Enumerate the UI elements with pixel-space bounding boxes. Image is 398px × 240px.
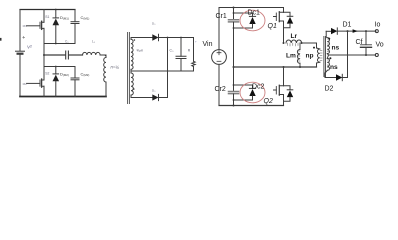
wire D2 branch: [325, 77, 336, 79]
transistor S2 (lower MOSFET): [27, 67, 45, 97]
minus sign: [217, 60, 221, 62]
wire bottom rail: [219, 105, 284, 107]
node dot: [55, 66, 57, 68]
diode D1: [331, 28, 337, 34]
red ellipse around Dc2: [240, 82, 265, 103]
svg-text:D₀: D₀: [152, 22, 156, 26]
wire series branch: [44, 54, 65, 56]
diode DM2 (lower): [53, 67, 60, 97]
node dot: [55, 43, 57, 45]
svg-text:Cr2: Cr2: [215, 86, 226, 93]
wire output top: [337, 30, 376, 32]
svg-text:Cr1: Cr1: [216, 13, 227, 20]
svg-text:Q1: Q1: [268, 23, 277, 30]
battery VB: [16, 50, 25, 52]
edge blob: [0, 38, 2, 41]
wire center tap: [131, 70, 194, 72]
svg-text:M2: M2: [23, 82, 27, 86]
svg-text:C₀: C₀: [65, 40, 69, 44]
polarity dot: [134, 39, 136, 41]
source Vin circle: [212, 50, 227, 65]
diode DM1 (upper): [53, 10, 60, 44]
wire D1 anode: [326, 30, 331, 32]
arrow Io: [353, 29, 358, 33]
svg-text:Lr: Lr: [291, 33, 298, 40]
transformer T1 primary: [104, 55, 106, 97]
polarity dot ns upper: [328, 38, 330, 40]
battery plus mark: [23, 36, 25, 38]
wire center tap out: [329, 54, 376, 56]
transformer T2 secondary upper ns: [326, 31, 329, 55]
svg-text:Cf: Cf: [356, 39, 363, 46]
wire D2 riser: [342, 31, 347, 77]
wire secondary bottom: [131, 97, 152, 99]
wire mid rail: [234, 66, 317, 68]
transformer T2 core: [324, 37, 326, 77]
wire Vin top: [218, 8, 220, 50]
wire Vin bottom: [218, 64, 220, 105]
svg-text:R: R: [188, 49, 191, 53]
svg-text:+: +: [195, 40, 197, 44]
svg-text:Dc2: Dc2: [252, 84, 265, 91]
node dot Lm top: [301, 42, 303, 44]
capacitor CM2 (lower): [71, 67, 79, 97]
transistor Q2: [274, 67, 294, 106]
polarity dot np: [313, 47, 315, 49]
svg-text:np: np: [306, 53, 314, 60]
svg-text:L₀: L₀: [92, 40, 96, 44]
wire left rail lower: [19, 55, 21, 97]
svg-text:D₀: D₀: [152, 89, 156, 93]
inductor Lm: [297, 43, 300, 67]
svg-text:V²: V²: [27, 45, 32, 50]
transformer T1 core: [128, 33, 130, 104]
node dot Lm bottom: [299, 66, 301, 68]
node dot: [180, 37, 182, 39]
svg-text:⅒n: ⅒n: [137, 49, 144, 53]
wire secondary top: [131, 37, 152, 39]
node dot D2 join: [347, 30, 349, 32]
node dot Cf top: [365, 30, 367, 32]
capacitor CM1 (upper): [71, 10, 79, 44]
terminal circle bottom: [375, 54, 378, 57]
svg-text:Vo: Vo: [376, 42, 384, 49]
svg-text:D(M2): D(M2): [60, 72, 69, 77]
polarity dot: [133, 88, 135, 90]
terminal circle top: [375, 30, 378, 33]
transformer T1 secondary lower: [131, 71, 133, 98]
wire to riser: [302, 43, 317, 48]
node dot: [105, 55, 107, 57]
inductor Lr: [286, 40, 302, 43]
wire cell1 bottom rail: [44, 43, 75, 45]
svg-text:C(M1): C(M1): [81, 15, 90, 20]
svg-text:M1: M1: [23, 24, 27, 28]
red ellipse around Dc1: [240, 10, 265, 31]
svg-text:Io: Io: [375, 22, 381, 29]
resistor R (load): [192, 38, 195, 72]
svg-text:S2: S2: [45, 72, 49, 76]
node dot: [233, 66, 235, 68]
capacitor Co (output): [176, 38, 186, 72]
node dot Lr left: [283, 42, 285, 44]
capacitor Cr1: [229, 8, 239, 68]
transistor S1 (upper MOSFET): [27, 10, 45, 44]
polarity dot ns lower: [329, 57, 331, 59]
diode Do2 (output lower): [152, 94, 158, 100]
diode Do1 (output upper): [152, 34, 158, 40]
capacitor Cf: [361, 31, 372, 55]
diode Dc1 (clamp): [233, 12, 256, 29]
svg-text:Dc1: Dc1: [248, 10, 261, 17]
plus sign: [217, 51, 221, 55]
svg-text:ns: ns: [330, 64, 338, 71]
wire output top: [159, 37, 194, 39]
transformer T2 secondary lower ns: [325, 55, 330, 78]
node dot: [233, 105, 235, 107]
node dot: [167, 37, 169, 39]
svg-text:n=¼: n=¼: [111, 64, 120, 69]
node dot: [55, 9, 57, 11]
inductor L (series): [82, 52, 100, 55]
wire: [100, 54, 106, 56]
wire midpoint column: [43, 44, 45, 67]
diode Dc2 (clamp): [233, 84, 256, 101]
svg-text:D2: D2: [325, 86, 334, 93]
svg-text:C(M2): C(M2): [81, 72, 90, 77]
transformer T2 primary np: [317, 48, 323, 67]
svg-text:Lm: Lm: [286, 53, 296, 60]
node dot: [283, 66, 285, 68]
node dot: [233, 7, 235, 9]
transformer T1 secondary upper: [131, 38, 133, 72]
wire bottom rail: [20, 96, 106, 98]
svg-text:S1: S1: [45, 15, 49, 19]
svg-text:Vin: Vin: [203, 41, 213, 48]
svg-text:D(M1): D(M1): [60, 15, 69, 20]
wire cell2 top rail: [44, 66, 75, 68]
svg-text:D1: D1: [343, 22, 352, 29]
wire lower diode riser: [159, 38, 168, 98]
svg-text:Q2: Q2: [264, 98, 273, 105]
wire top rail: [219, 7, 284, 9]
wire left rail upper: [19, 10, 21, 52]
node dot Cf bottom: [365, 54, 367, 56]
transistor Q1: [274, 8, 294, 44]
svg-text:ns: ns: [332, 45, 340, 52]
capacitor C (series): [66, 51, 69, 59]
capacitor Cr2: [229, 67, 239, 106]
diode D2: [336, 74, 342, 80]
node A midpoint: [43, 54, 45, 56]
wire: [69, 54, 83, 56]
svg-text:C₀: C₀: [170, 49, 174, 53]
wire top rail: [20, 9, 75, 11]
